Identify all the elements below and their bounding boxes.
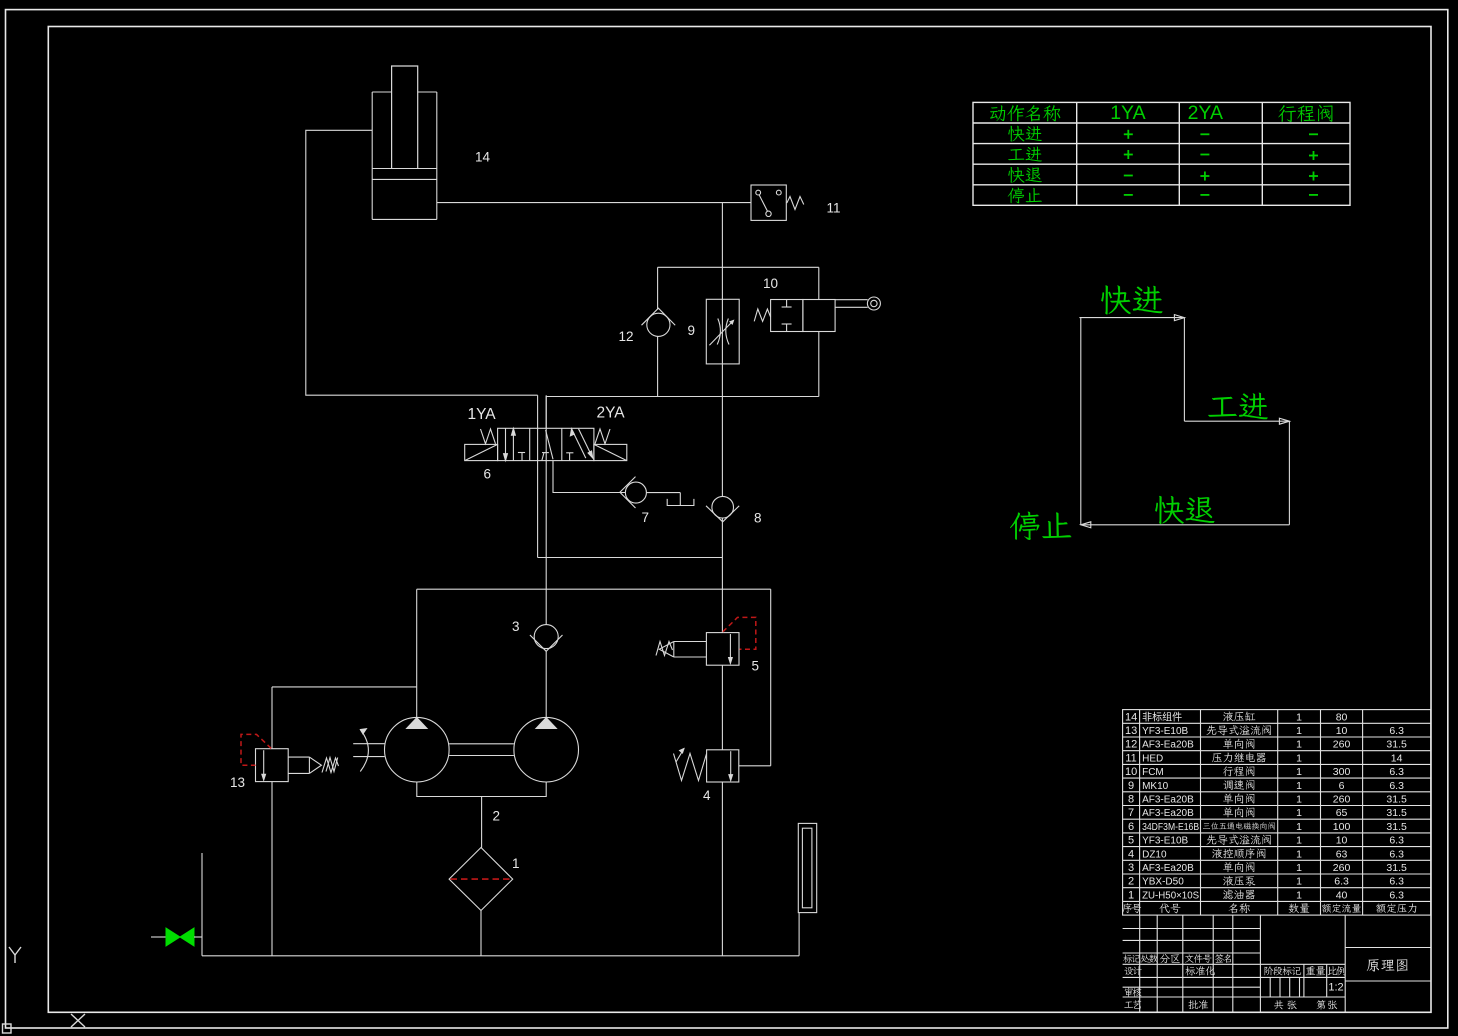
svg-text:31.5: 31.5 — [1386, 862, 1407, 874]
action table row kuaijin — [1008, 126, 1024, 142]
solenoid valve V6 body — [498, 428, 594, 460]
title block right section — [1345, 947, 1431, 949]
svg-text:9: 9 — [688, 323, 696, 338]
svg-text:2: 2 — [493, 809, 501, 824]
svg-text:1: 1 — [1296, 848, 1302, 860]
relief valve V5 poppet triangle — [659, 642, 674, 658]
parts list header row — [1123, 903, 1132, 913]
cylinder C14 body — [372, 91, 391, 93]
travel valve V10 blocked ports — [786, 300, 788, 308]
svg-text:1: 1 — [1296, 862, 1302, 874]
wire valve 6 tank port to check valve 7 — [553, 461, 625, 493]
svg-text:1: 1 — [1296, 835, 1302, 847]
svg-text:1: 1 — [1296, 780, 1302, 792]
wire relief valve 13 riser — [271, 687, 273, 749]
svg-text:6.3: 6.3 — [1334, 876, 1349, 888]
cycle diagram drop 1 — [1183, 318, 1185, 422]
svg-text:40: 40 — [1336, 889, 1348, 901]
svg-text:31.5: 31.5 — [1386, 807, 1407, 819]
check valve V7 — [620, 477, 636, 508]
svg-text:YBX-D50: YBX-D50 — [1142, 877, 1184, 888]
svg-text:5: 5 — [1128, 835, 1134, 847]
svg-text:AF3-Ea20B: AF3-Ea20B — [1142, 740, 1194, 751]
pump shaft — [449, 743, 514, 745]
travel valve V10 spring — [754, 309, 770, 321]
filter F1 diamond — [449, 848, 513, 911]
svg-text:6: 6 — [1128, 821, 1134, 833]
svg-text:1YA: 1YA — [468, 406, 497, 423]
title block left grid — [1123, 928, 1261, 930]
svg-text:12: 12 — [619, 329, 634, 344]
wire cylinder left port to valve 6 port A — [306, 130, 538, 395]
sequence valve V4 spring — [674, 754, 707, 781]
UCS axis icon Y — [9, 947, 21, 955]
wire check valve 7 to tank symbol — [679, 493, 681, 506]
svg-text:13: 13 — [1125, 725, 1137, 737]
filter F1 element (red dashed) — [451, 878, 512, 880]
svg-text:6.3: 6.3 — [1389, 725, 1404, 737]
svg-text:1: 1 — [1296, 807, 1302, 819]
svg-text:1: 1 — [1296, 889, 1302, 901]
cycle diagram left return — [1080, 318, 1082, 525]
svg-text:1: 1 — [1296, 711, 1302, 723]
cycle text kuaijin — [1101, 285, 1131, 314]
wire valve 6 port A line through body — [537, 395, 539, 557]
svg-text:1: 1 — [1296, 766, 1302, 778]
travel valve V10 roller — [867, 297, 880, 310]
svg-text:11: 11 — [827, 201, 841, 216]
svg-text:6.3: 6.3 — [1389, 889, 1404, 901]
svg-text:6.3: 6.3 — [1389, 780, 1404, 792]
svg-text:10: 10 — [1125, 766, 1137, 778]
svg-text:31.5: 31.5 — [1386, 739, 1407, 751]
svg-text:11: 11 — [1125, 752, 1136, 764]
svg-text:FCM: FCM — [1142, 767, 1164, 778]
relief valve V13 spring channel — [288, 756, 309, 758]
svg-text:7: 7 — [1128, 807, 1134, 819]
valve V6 right spring — [595, 429, 610, 444]
pump P2 (2) — [514, 717, 579, 782]
svg-text:1: 1 — [1296, 821, 1302, 833]
svg-text:MK10: MK10 — [1142, 781, 1169, 792]
svg-text:1: 1 — [1296, 739, 1302, 751]
svg-text:100: 100 — [1333, 821, 1351, 833]
svg-text:260: 260 — [1333, 739, 1351, 751]
cycle diagram line kuaitui — [1081, 524, 1290, 526]
svg-text:DZ10: DZ10 — [1142, 849, 1167, 860]
svg-text:10: 10 — [1336, 835, 1348, 847]
title block drawing name yuanlitu — [1367, 959, 1379, 971]
wire unloading right drop to valve 4 — [770, 589, 772, 766]
tank return line — [202, 955, 799, 957]
svg-text:300: 300 — [1333, 766, 1351, 778]
relief valve V13 spring — [322, 758, 339, 773]
relief valve V5 spring channel — [674, 641, 707, 643]
cycle text tingzhi — [1010, 512, 1040, 540]
title block middle section — [1344, 915, 1346, 1012]
svg-text:10: 10 — [1336, 725, 1348, 737]
svg-text:7: 7 — [642, 510, 650, 525]
svg-text:12: 12 — [1125, 739, 1137, 751]
svg-text:9: 9 — [1128, 780, 1134, 792]
cycle text kuaitui — [1155, 496, 1184, 524]
wire network top line — [658, 266, 819, 268]
wire main line valve 5 to valve 4 — [721, 665, 723, 750]
sequence valve V4 adjust arrow — [676, 749, 684, 763]
action table row gongjin — [1008, 149, 1024, 160]
valve V6 right position crossed arrows — [572, 429, 586, 458]
svg-text:HED: HED — [1142, 753, 1163, 764]
pump drive fork — [353, 743, 384, 745]
relief valve V13 poppet triangle — [309, 757, 321, 773]
wire pump2 pressure line through valve 6 — [545, 395, 547, 625]
svg-text:6.3: 6.3 — [1389, 835, 1404, 847]
svg-text:65: 65 — [1336, 807, 1348, 819]
wire valve 4 side port — [739, 765, 771, 767]
cycle diagram drop 2 — [1288, 421, 1290, 525]
svg-text:10: 10 — [763, 276, 778, 291]
svg-text:2YA: 2YA — [1188, 102, 1223, 124]
svg-text:AF3-Ea20B: AF3-Ea20B — [1142, 863, 1194, 874]
wire relief valve 13 to tank — [271, 782, 273, 956]
relief valve V5 pilot line (red dashed) — [723, 617, 756, 649]
svg-text:80: 80 — [1336, 711, 1348, 723]
svg-text:YF3-E10B: YF3-E10B — [1142, 836, 1188, 847]
speed valve V9 throttle arcs — [717, 319, 720, 345]
pressure switch S11 contacts — [756, 190, 761, 195]
sequence valve V4 body — [707, 750, 739, 782]
svg-text:2YA: 2YA — [597, 405, 626, 422]
pump P1 (2) — [385, 717, 450, 782]
wire valve 6 port B to network bottom line — [546, 397, 819, 429]
wire filter to tank line — [480, 911, 482, 956]
wire check valve 3 to pump2 — [545, 652, 547, 718]
relief valve V13 pilot line (red dashed) — [241, 734, 271, 765]
valve V6 left spring — [481, 429, 496, 444]
title block small labels — [1123, 954, 1132, 962]
wire network left branch lower — [657, 336, 659, 396]
shut-off valve (green) — [166, 928, 180, 946]
pressure switch S11 body — [751, 185, 786, 220]
wire main line valve 4 to tank — [721, 782, 723, 956]
pressure switch S11 spring — [787, 197, 804, 210]
relief valve V13 body — [256, 749, 289, 782]
relief valve V5 spring — [656, 642, 673, 656]
svg-text:4: 4 — [703, 788, 711, 803]
travel valve V10 body — [771, 300, 803, 332]
svg-text:YF3-E10B: YF3-E10B — [1142, 726, 1188, 737]
wire network right branch — [818, 267, 820, 299]
svg-text:6.3: 6.3 — [1389, 766, 1404, 778]
pump drive rotation arc — [360, 730, 368, 772]
svg-text:非标组件: 非标组件 — [1142, 710, 1182, 723]
relief valve V5 body — [706, 633, 739, 666]
cylinder C14 piston — [372, 168, 437, 170]
svg-text:AF3-Ea20B: AF3-Ea20B — [1142, 794, 1194, 805]
svg-text:1: 1 — [1296, 793, 1302, 805]
check valve V3 — [534, 625, 558, 649]
svg-text:1: 1 — [1296, 725, 1302, 737]
speed (throttle) valve V9 body — [706, 299, 739, 364]
UCS origin square — [3, 1024, 12, 1033]
wire P junction line — [538, 557, 723, 559]
svg-text:260: 260 — [1333, 862, 1351, 874]
svg-text:5: 5 — [752, 659, 760, 674]
shut-off valve stub left — [151, 936, 166, 938]
wire unloading top line — [417, 588, 771, 590]
svg-text:31.5: 31.5 — [1386, 793, 1407, 805]
travel valve V10 roller lever — [835, 299, 868, 301]
svg-text:14: 14 — [1391, 752, 1403, 764]
action table row tingzhi — [1008, 188, 1024, 204]
svg-text:1: 1 — [1128, 889, 1134, 901]
svg-text:260: 260 — [1333, 793, 1351, 805]
tank symbol — [667, 499, 694, 506]
svg-text:1: 1 — [1296, 752, 1302, 764]
svg-text:14: 14 — [475, 150, 491, 165]
wire pump1 to relief valve 13 branch — [272, 686, 417, 688]
valve V6 left solenoid — [465, 444, 498, 460]
valve V6 left position flow arrows — [505, 428, 507, 460]
pump drive W mark — [326, 758, 338, 772]
wire main line from switch junction down to check valve 8 — [721, 203, 723, 497]
svg-text:3: 3 — [512, 619, 520, 634]
check valve V8 — [712, 496, 734, 518]
svg-text:4: 4 — [1128, 848, 1134, 860]
wire main line check valve 8 to junction — [721, 518, 723, 633]
svg-text:31.5: 31.5 — [1386, 821, 1407, 833]
check valve V12 — [642, 308, 676, 325]
svg-text:6.3: 6.3 — [1389, 876, 1404, 888]
svg-text:2: 2 — [1128, 876, 1134, 888]
svg-text:1: 1 — [512, 856, 520, 871]
action table header texts — [990, 105, 1005, 121]
wire pump1 outlet riser — [416, 589, 418, 717]
wire drain riser — [201, 853, 203, 956]
action table row kuaitui — [1008, 167, 1024, 183]
valve V6 centre position — [546, 430, 553, 459]
UCS axis icon X — [71, 1014, 85, 1027]
shut-off valve stub right — [194, 936, 202, 938]
svg-text:34DF3M-E16B: 34DF3M-E16B — [1142, 822, 1199, 833]
svg-text:1YA: 1YA — [1110, 102, 1145, 124]
svg-text:6: 6 — [484, 467, 492, 482]
svg-text:8: 8 — [1128, 793, 1134, 805]
svg-text:ZU-H50×10S: ZU-H50×10S — [1142, 890, 1199, 901]
wire cylinder right port to pressure switch — [437, 202, 751, 204]
cycle text gongjin — [1208, 397, 1237, 417]
cylinder C14 piston rod — [392, 66, 418, 169]
wire network left branch upper — [657, 267, 659, 309]
valve V6 right solenoid — [594, 444, 627, 460]
svg-text:6.3: 6.3 — [1389, 848, 1404, 860]
action table grid — [973, 102, 1350, 205]
cycle diagram line gongjin — [1184, 420, 1289, 422]
svg-text:13: 13 — [230, 775, 245, 790]
svg-text:1: 1 — [1296, 876, 1302, 888]
wire pump suction — [417, 782, 546, 797]
speed valve V9 adjust arrow — [709, 320, 733, 345]
cycle diagram line kuaijin — [1079, 317, 1184, 319]
svg-text:14: 14 — [1125, 711, 1137, 723]
svg-text:8: 8 — [754, 511, 762, 526]
wire suction to filter — [481, 797, 483, 848]
svg-text:3: 3 — [1128, 862, 1134, 874]
svg-text:AF3-Ea20B: AF3-Ea20B — [1142, 808, 1194, 819]
parts list grid — [1123, 710, 1431, 916]
wire level gauge to tank line — [798, 913, 800, 956]
svg-text:63: 63 — [1336, 848, 1348, 860]
level gauge — [798, 823, 816, 912]
svg-text:6: 6 — [1339, 780, 1345, 792]
svg-text:1:2: 1:2 — [1328, 982, 1343, 994]
